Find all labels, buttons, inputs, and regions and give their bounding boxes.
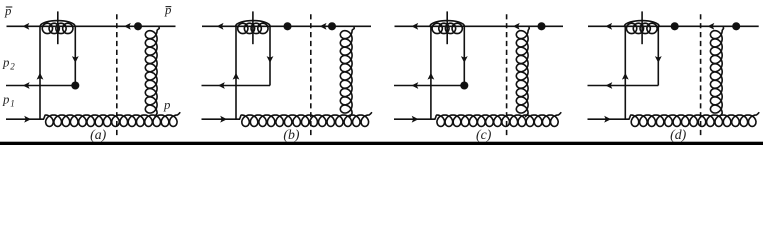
svg-text:(b): (b) (283, 127, 299, 143)
quark line p1 (panel a) (6, 118, 44, 120)
arrow up on left vertical (panel c) (428, 73, 435, 80)
arrow down on right vertical (panel a) (72, 56, 79, 63)
final-state cut dashed line (panel d) (700, 14, 702, 137)
svg-text:2: 2 (10, 62, 15, 72)
arrow up on left vertical (panel b) (233, 73, 240, 80)
bottom page rule bar (0, 142, 763, 145)
arrow on top line left (panel c) (411, 23, 418, 30)
svg-text:(a): (a) (90, 127, 106, 143)
vertex dot on top line right of cut (panel c) (537, 22, 545, 30)
vertical gluon coil (panel a) (145, 26, 159, 116)
quark line p2 (panel d) (588, 85, 659, 87)
arrow on top line right of cut (panel a) (124, 23, 131, 30)
quark line p1 (panel c) (394, 118, 435, 120)
vertical gluon coil (panel b) (340, 26, 354, 116)
svg-text:p: p (2, 93, 10, 107)
slash through coil (panel b) (252, 11, 254, 44)
arrow down on right vertical (panel b) (267, 56, 274, 63)
quark line vertical left (panel c) (430, 26, 432, 119)
quark line vertical right (panel b) (269, 26, 271, 85)
vertex dot on top line right of cut (panel b) (328, 22, 336, 30)
bottom gluon line (panel d) (629, 113, 759, 127)
svg-text:(d): (d) (670, 127, 686, 143)
quark line vertical right (panel d) (657, 26, 659, 85)
arrow on p2 line (panel b) (218, 82, 225, 89)
arrow on top line right of cut (panel b) (320, 23, 327, 30)
arrow on p2 line (panel a) (23, 82, 30, 89)
quark line pbar (top, panel a) (7, 25, 176, 27)
svg-text:(c): (c) (476, 127, 492, 143)
final-state cut dashed line (panel b) (310, 14, 312, 137)
svg-text:p: p (163, 98, 171, 112)
vertical gluon coil (panel c) (516, 26, 529, 116)
quark line vertical right (panel a) (74, 26, 76, 85)
vertex dot on top line right of cut (panel a) (134, 22, 142, 30)
quark line vertical right (panel c) (463, 26, 465, 85)
arrow on p1 line (panel a) (24, 116, 31, 123)
arrow up on left vertical (panel d) (622, 73, 629, 80)
quark line p2 (panel b) (202, 85, 271, 87)
final-state cut dashed line (panel a) (116, 14, 118, 137)
vertex dot on top line right of cut (panel d) (732, 22, 740, 30)
gluon self-energy coil on top line (panel c) (430, 21, 465, 27)
quark line p1 (panel b) (202, 118, 241, 120)
bottom gluon line (panel c) (435, 113, 561, 127)
gluon self-energy coil on top line (panel a) (40, 21, 75, 27)
slash through coil (panel d) (641, 11, 643, 44)
arrow on p1 line (panel d) (604, 116, 611, 123)
arrow on top line left (panel b) (217, 23, 224, 30)
svg-text:p: p (2, 56, 10, 70)
bottom gluon line (panel a) (44, 113, 180, 127)
quark line p1 (panel d) (588, 118, 630, 120)
arrow on p1 line (panel b) (220, 116, 227, 123)
quark line p2 (panel a) (6, 85, 75, 87)
arrow on top line right of cut (panel c) (513, 23, 520, 30)
vertex dot at p2 junction (panel c) (460, 81, 468, 89)
vertical gluon coil (panel d) (710, 26, 723, 116)
quark line vertical left (panel a) (39, 26, 41, 119)
quark line pbar (top, panel c) (395, 25, 564, 27)
arrow down on right vertical (panel c) (461, 56, 468, 63)
bottom gluon line (panel b) (240, 113, 372, 127)
arrow on top line left (panel a) (23, 23, 30, 30)
quark line vertical left (panel b) (235, 26, 237, 119)
final-state cut dashed line (panel c) (506, 14, 508, 137)
vertex dot at p2 junction (panel a) (71, 81, 79, 89)
arrow on p2 line (panel d) (606, 82, 613, 89)
quark line pbar (top, panel b) (202, 25, 371, 27)
quark line pbar (top, panel d) (588, 25, 759, 27)
gluon self-energy coil on top line (panel b) (235, 21, 270, 27)
quark line p2 (panel c) (394, 85, 464, 87)
slash through coil (panel c) (446, 11, 448, 44)
svg-text:p: p (4, 4, 12, 18)
arrow on p1 line (panel c) (412, 116, 419, 123)
arrow on top line right of cut (panel d) (708, 23, 715, 30)
slash through coil (panel a) (57, 11, 59, 44)
arrow up on left vertical (panel a) (37, 73, 44, 80)
vertex dot on top line left of cut (panel b) (283, 22, 291, 30)
svg-text:1: 1 (10, 98, 15, 108)
gluon self-energy coil on top line (panel d) (624, 21, 659, 27)
arrow down on right vertical (panel d) (655, 56, 662, 63)
arrow on top line left (panel d) (605, 23, 612, 30)
quark line vertical left (panel d) (624, 26, 626, 119)
vertex dot on top line left of cut (panel d) (671, 22, 679, 30)
arrow on p2 line (panel c) (412, 82, 419, 89)
svg-text:p: p (164, 3, 172, 17)
